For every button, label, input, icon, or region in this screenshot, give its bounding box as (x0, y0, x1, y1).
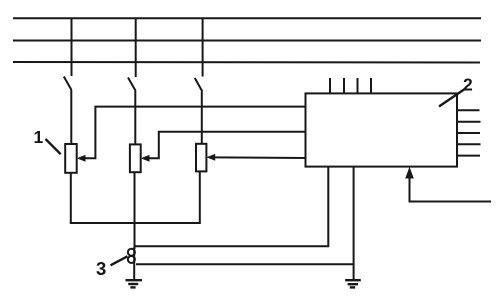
ground (left) bar 3 (130, 286, 135, 288)
wire: coil top tap to box 2 bottom pin A (136, 167, 329, 247)
svg-text:1: 1 (34, 127, 44, 147)
resistor/valve box 1 (65, 144, 77, 173)
top pin 4 of box 2 (370, 78, 372, 93)
wire: resistor 3 bottom drop (199, 171, 201, 223)
arrowhead into box 2 bottom (405, 167, 414, 179)
right pin 1 of box 2 (457, 109, 480, 111)
gate wire to box 2 (149, 132, 306, 159)
switch S3 blade (195, 78, 203, 92)
ground (left) bar 1 (126, 279, 143, 281)
top pin 2 of box 2 (343, 78, 345, 93)
wire: column 1 switch to resistor 1 (70, 90, 72, 144)
wire: column 3 switch to resistor 3 (201, 92, 203, 144)
ground (right) bar 3 (350, 286, 355, 288)
wire: feedback input with up arrow into box 2 (410, 177, 492, 202)
wire: coil line through loops (133, 247, 135, 280)
switch S1 blade (64, 77, 72, 91)
bus line L3 (bottom phase) (13, 61, 480, 64)
bus line L1 (top phase) (13, 17, 481, 19)
right pin 3 of box 2 (457, 132, 480, 134)
switch S2 blade (128, 78, 136, 92)
wire: common bottom rail (70, 222, 201, 224)
top pin 1 of box 2 (329, 78, 331, 93)
wire: column 2 switch to resistor 2 (134, 91, 136, 145)
gate wire to box 1 (85, 107, 306, 159)
coil 3 loop b (128, 256, 135, 263)
svg-text:3: 3 (96, 258, 106, 279)
gate wire to box 3 (214, 156, 306, 159)
arrowhead into box 3 (206, 154, 215, 161)
wire: column 3 drop from bus (202, 18, 204, 77)
svg-text:2: 2 (463, 75, 473, 95)
top pin 3 of box 2 (357, 78, 359, 93)
resistor/valve box (middle) (130, 144, 141, 172)
ground (left) bar 2 (128, 283, 138, 285)
wire: column 2 drop from bus (135, 18, 137, 77)
coil 3 loop a (128, 249, 135, 256)
wire: resistor 1 bottom drop (70, 173, 72, 223)
arrowhead into box 1 (77, 155, 86, 162)
ground (right) bar 2 (348, 283, 358, 285)
leader line for label 2 (439, 89, 466, 107)
wire: coil bottom tap to ground lead (136, 263, 354, 265)
right pin 2 of box 2 (457, 121, 481, 123)
arrowhead into box 2 (141, 155, 150, 162)
wire: column 1 drop from bus (71, 18, 73, 76)
leader line for label 3 (111, 256, 128, 265)
right pin 5 of box 2 (457, 155, 480, 157)
bus line L2 (middle phase) (13, 40, 481, 42)
wire: box 2 bottom pin B down to ground (353, 167, 355, 280)
ground (right) bar 1 (345, 279, 361, 281)
leader line for label 1 (46, 139, 61, 154)
right pin 4 of box 2 (457, 143, 481, 145)
resistor/valve box (right) (196, 144, 206, 172)
wire: resistor 2 bottom down to coil (134, 172, 136, 249)
control unit box 2 (306, 93, 458, 166)
